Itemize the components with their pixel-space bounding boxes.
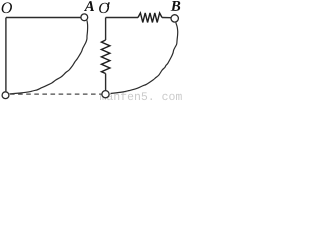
label O	[2, 2, 12, 13]
label A	[84, 1, 94, 11]
wire vertical lower segment to bottom-right terminal	[105, 74, 107, 91]
wire top rail right (O' to resistor)	[106, 17, 138, 19]
wire dashed baseline between bottom terminals	[10, 93, 102, 95]
node A terminal circle	[81, 14, 88, 21]
wire O' vertical upper segment	[105, 18, 107, 41]
resistor R1 (horizontal zigzag)	[138, 13, 162, 23]
wire top rail left (O to A)	[6, 17, 81, 19]
label B	[171, 1, 181, 11]
node bottom-left terminal circle	[2, 92, 9, 99]
label O'	[99, 3, 109, 13]
node bottom-right terminal circle	[102, 91, 109, 98]
wire resistor to B	[162, 17, 171, 19]
wire left vertical (O down to bottom terminal)	[5, 18, 7, 92]
wire curved path B to bottom-right terminal	[111, 23, 178, 94]
watermark manfen5.com	[100, 92, 182, 100]
wire curved path A to bottom-left terminal	[10, 20, 88, 94]
node B terminal circle	[171, 15, 178, 22]
resistor R2 (vertical zigzag)	[101, 40, 110, 74]
